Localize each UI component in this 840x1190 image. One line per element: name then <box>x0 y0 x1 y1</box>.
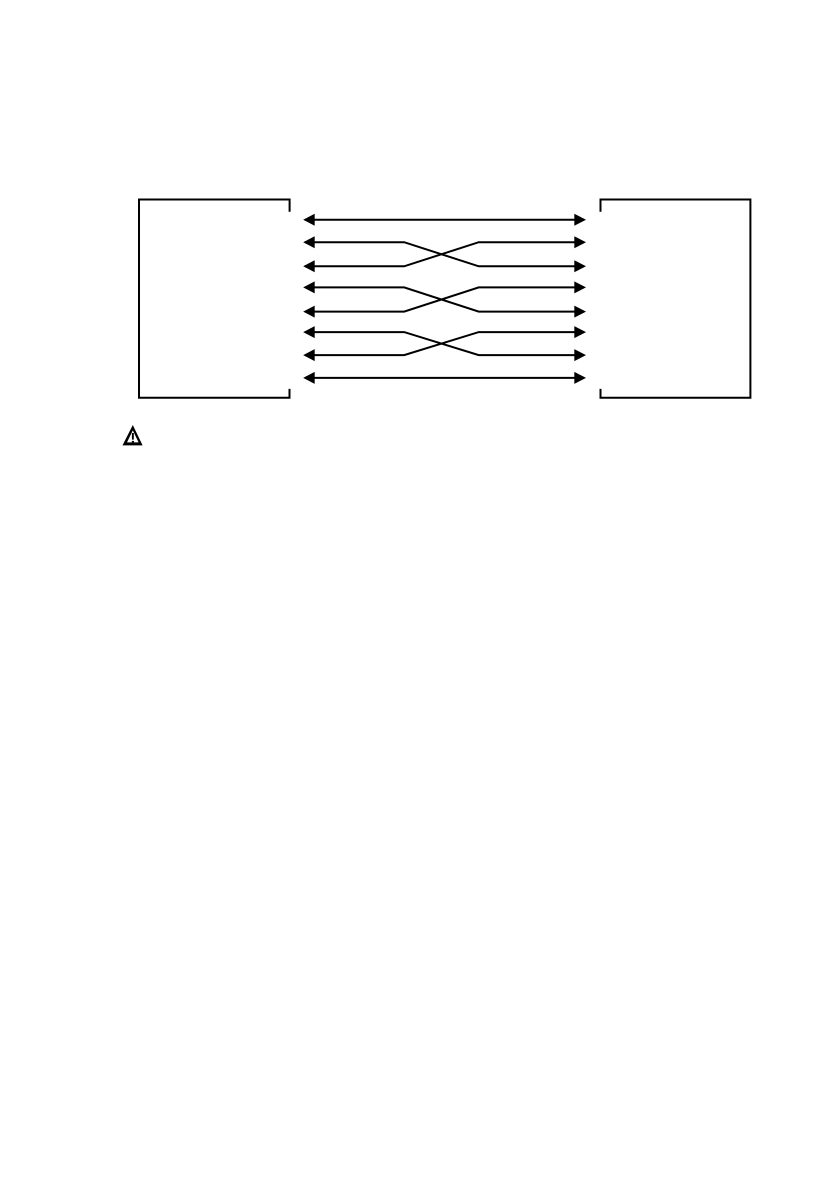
wire 4 crossover upper (left row4 to right row5) <box>303 281 586 317</box>
wire 1 straight (double-headed arrow) <box>303 214 586 226</box>
wire 5 crossover lower (left row5 to right row4) <box>303 281 586 317</box>
connector box left <box>139 200 290 398</box>
wire 3 crossover lower (left row3 to right row2) <box>303 236 586 272</box>
wire 2 crossover upper (left row2 to right row3) <box>303 236 586 272</box>
warning triangle (caution symbol) <box>123 425 143 445</box>
wire 6 crossover upper (left row6 to right row7) <box>303 326 586 361</box>
connector box right <box>601 200 751 398</box>
wire 7 crossover lower (left row7 to right row6) <box>303 326 586 361</box>
wire 8 straight (double-headed arrow) <box>303 372 586 384</box>
